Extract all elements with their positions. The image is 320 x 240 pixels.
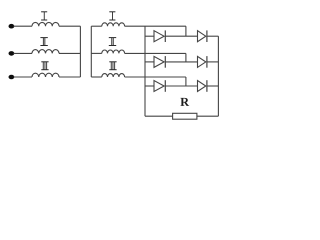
wire anode stub row 3 [145,85,154,87]
wire row 3 mid link [165,85,197,87]
wire drop phase 2 to bridge midpoint 2 [185,53,187,62]
label III (right winding 3) [109,61,116,70]
wire row 3 output to positive bus [207,85,219,87]
node C phase-3 input terminal [9,75,15,80]
wire phase 2 line to drop [125,52,186,54]
wire drop phase 1 to bridge midpoint 1 [185,26,187,36]
wire phase 3 line to drop [125,76,186,78]
wire winding I to bus A [59,25,80,27]
wire bus B (right winding common) [90,26,92,77]
label II (right winding 2) [109,37,116,46]
resistor R [173,113,197,119]
label III (left winding 3) [41,61,48,70]
node B phase-2 input terminal [9,51,15,56]
label R (load resistor) [180,98,189,106]
inductor winding II (right group) [102,50,125,53]
wire bottom rail right [197,115,219,117]
wire phase 1 line to drop [125,25,186,27]
wire bus B to winding II right group [91,52,102,54]
wire winding II to bus A [59,52,80,54]
wire bus A (left winding common) [79,26,81,77]
node A phase-1 input terminal [9,24,15,29]
diode VD1 (left, row 1) [154,30,165,42]
wire positive bus (rectifier right) [217,36,219,116]
label II (left winding 2) [40,37,47,46]
inductor winding III (left group) [32,73,59,77]
wire phase-1 input to winding I [14,25,33,27]
wire row 2 output to positive bus [207,61,219,63]
wire negative bus (rectifier left) [144,26,146,116]
wire row 1 output to positive bus [207,35,219,37]
wire row 1 mid link [165,35,197,37]
diode VD5 (right, row 2) [198,56,207,68]
diode VD4 (right, row 1) [198,30,207,42]
wire bottom rail left [145,115,173,117]
label I (right winding 1) [109,11,115,20]
wire winding III to bus A [59,76,80,78]
wire phase-3 input to winding III [14,76,33,78]
wire anode stub row 1 [145,35,154,37]
wire row 2 mid link [165,61,197,63]
wire drop phase 3 to bridge midpoint 3 [185,77,187,86]
wire bus B to winding III right group [91,76,102,78]
diode VD3 (left, row 3) [154,80,165,92]
wire phase-2 input to winding II [14,52,33,54]
label I (left winding 1) [41,11,47,20]
diode VD6 (right, row 3) [198,80,207,92]
inductor winding I (right group) [102,23,125,26]
inductor winding II (left group) [32,50,59,54]
inductor winding I (left group) [32,22,59,26]
diode VD2 (left, row 2) [154,56,165,68]
wire bus B to winding I right group [91,25,102,27]
wire anode stub row 2 [145,61,154,63]
inductor winding III (right group) [102,74,125,77]
